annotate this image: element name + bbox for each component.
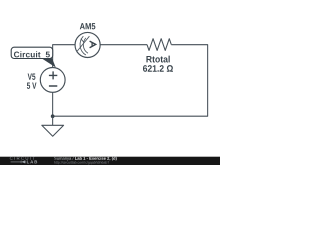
wire: ammeter right terminal to resistor [100,44,147,46]
resistor Rtotal [147,39,171,51]
wire: V5 top up, corner, right to ammeter left terminal [53,45,75,68]
ammeter AM5 [75,32,100,57]
watermark bar [0,157,220,165]
label AM5 [80,23,96,29]
label Rtotal [146,56,169,63]
wire: V5 bottom down to junction [52,92,54,116]
label callout Circuit_5 [11,47,56,67]
value 5 V [27,83,37,89]
watermark title line [54,157,73,161]
watermark url line [54,161,109,164]
value 621.2 Ohm [143,65,173,72]
node junction [51,114,55,118]
wire: junction stub to ground [52,116,54,125]
label V5 [28,74,36,80]
watermark logo CIRCUIT [10,157,35,160]
watermark logo diode and LAB [11,160,38,163]
ground [42,125,64,136]
voltage source V5 [40,68,65,93]
wire: resistor right, down right side, bottom back to junction [53,45,208,117]
